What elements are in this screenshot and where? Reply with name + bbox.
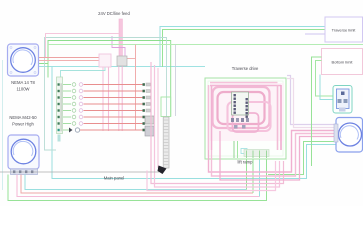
connector block bottom pins — [244, 150, 269, 159]
wire pink vertical feed c — [118, 66, 120, 131]
wire lavender stub to limit box — [305, 33, 325, 35]
wire pink vertical feed d — [121, 66, 123, 131]
wire red motor1 a — [39, 57, 100, 59]
wire pink left edge pair — [208, 85, 210, 150]
component IC small b — [145, 126, 154, 136]
pointer arrow — [158, 166, 167, 175]
wire gray main panel line — [0, 171, 159, 173]
wire green long mid — [48, 44, 363, 46]
wire pink loop middle — [218, 92, 265, 124]
wire pink right drop b — [280, 85, 282, 150]
row 4 — [63, 102, 150, 106]
wire pink bundle c — [220, 131, 336, 180]
wire feed (thick pink from label) — [119, 19, 122, 57]
wire teal sensor stub — [320, 75, 333, 100]
wire pink bundle a — [209, 131, 337, 173]
svg-text:Main panel: Main panel — [104, 176, 125, 181]
header J1 — [57, 77, 63, 142]
wire pink loop outer — [213, 87, 270, 128]
motor M2 — [8, 135, 39, 169]
wire lavender to motor3 a — [287, 76, 336, 125]
wire teal bottom bus — [25, 175, 247, 190]
wire green limit b stub a — [312, 57, 322, 166]
row 2 — [63, 89, 150, 93]
wire teal header jumper — [61, 67, 106, 77]
wash pink — [210, 83, 284, 141]
wire lavender to motor3 b — [287, 79, 336, 128]
wire pink bundle d — [147, 161, 276, 191]
svg-text:Traverse drive: Traverse drive — [232, 66, 259, 71]
wire pink band b — [155, 65, 280, 187]
component block gray — [117, 56, 127, 66]
row 7 — [63, 122, 145, 126]
wire red cross stub — [127, 58, 136, 60]
motor M3 — [336, 118, 363, 153]
component marks lower — [231, 118, 249, 129]
wire red bottom bus — [21, 175, 253, 194]
ruler strip S1 — [163, 117, 169, 168]
wire gray vertical mid — [175, 45, 177, 117]
wire pink top feed a — [210, 82, 278, 84]
svg-text:lift ramp: lift ramp — [238, 160, 254, 165]
wire pink right drop a — [277, 85, 279, 150]
wire pink loop small — [233, 113, 259, 132]
wire green box mid — [161, 97, 171, 117]
wire pink bundle b — [212, 134, 337, 177]
connector J3 motor M3 — [334, 124, 338, 142]
wire pink band c — [157, 68, 159, 168]
svg-text:24V DC/line feed: 24V DC/line feed — [98, 11, 130, 16]
wire teal down-left — [52, 67, 336, 179]
connector green bars left — [234, 141, 247, 158]
svg-text:Power High: Power High — [12, 122, 34, 127]
wire green limit b stub b — [316, 61, 334, 97]
wire green wrap to motor3 — [268, 142, 336, 175]
limit box B2 — [322, 49, 363, 75]
component IC small a — [145, 116, 154, 124]
wire green motor1 up — [39, 41, 171, 117]
row 8 — [63, 128, 145, 133]
wire teal across — [39, 66, 206, 68]
board outline traverse drive — [205, 78, 286, 159]
svg-text:NEMA 14 T8: NEMA 14 T8 — [11, 80, 35, 85]
wire pink loop inner — [228, 102, 271, 131]
wire pink top feed b — [210, 85, 281, 87]
wire teal up to limit box — [160, 27, 325, 67]
sensor SW1 — [333, 86, 352, 114]
connector J2 motor M2 — [11, 169, 38, 175]
wire pink vertical b — [108, 67, 110, 131]
wire pink vertical a — [102, 67, 104, 131]
wire green header feed — [47, 64, 49, 78]
wire green bottom bus — [8, 152, 267, 201]
limit box B1 — [325, 17, 363, 42]
wire pink bottom bus — [17, 175, 260, 197]
row 6 — [63, 115, 145, 119]
wire red vertical — [135, 45, 137, 131]
row 3 — [63, 96, 150, 100]
svg-text:Bottom limit: Bottom limit — [332, 60, 354, 65]
component driver U2 — [232, 92, 249, 118]
wire red motor1 b — [39, 60, 100, 62]
wire teal left edge — [2, 60, 4, 190]
svg-text:NEMA M42-50: NEMA M42-50 — [9, 115, 37, 120]
row 5 — [63, 109, 150, 113]
svg-text:Traverse limit: Traverse limit — [332, 28, 357, 33]
svg-text:1100W: 1100W — [17, 87, 30, 92]
wire green up to limit box — [163, 30, 326, 68]
wire magenta jog — [112, 36, 125, 56]
row 1 — [63, 83, 150, 87]
wire pale teal down to motor2 — [45, 67, 57, 151]
wire pink branch left — [46, 34, 120, 58]
component relay pink — [99, 54, 111, 67]
motor M1 — [8, 44, 39, 76]
wire pink band a — [151, 62, 284, 184]
wire pale teal upper — [45, 38, 167, 117]
